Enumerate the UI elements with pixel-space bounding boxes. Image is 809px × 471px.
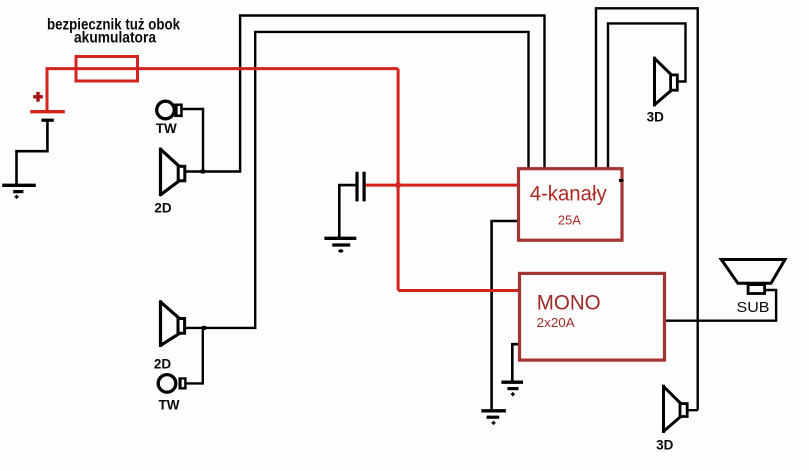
wire: red to MONO amp [398,289,520,292]
speaker 2D2 cone [159,300,162,347]
svg-text:3D: 3D [647,110,665,125]
stub mark inside amp top right [619,179,624,182]
wire: 4-kanaly ground [492,221,520,409]
wire: inner right loop to top 3D [608,23,686,170]
ground: 4-kanaly [481,409,506,412]
battery negative plate [41,119,53,122]
subwoofer SUB cone [721,260,785,284]
battery plus sign [33,92,43,102]
wire: MONO to SUB [664,290,776,321]
junction: red node at capacitor tap [395,182,401,188]
speaker 3D bottom cone [662,385,665,433]
wire: red main power battery to fuse to corner [47,69,398,111]
wire: 2D2 through inner loop to amp top [185,32,529,328]
ground: MONO [501,381,523,384]
svg-text:TW: TW [159,397,180,412]
svg-text:akumulatora: akumulatora [74,29,156,46]
svg-text:MONO: MONO [537,291,601,315]
speaker 2D1 cone [159,148,162,197]
svg-text:3D: 3D [656,438,674,453]
svg-text:4-kanały: 4-kanały [530,182,607,205]
tweeter TW2 [158,375,176,393]
wire: capacitor to ground [339,185,355,237]
svg-text:25A: 25A [558,213,581,228]
wire: 2D1 through outer loop to amp top [185,16,545,172]
wire: 3D bottom to loop [687,409,698,411]
svg-text:SUB: SUB [737,300,770,316]
ground: battery [2,184,36,187]
ground: capacitor [324,237,356,240]
wire: red vertical down to MONO level [397,69,400,291]
svg-text:TW: TW [156,121,177,136]
fuse F1 [76,57,138,82]
speaker 3D top cone [653,57,656,107]
capacitor C1 plates [357,172,364,202]
wire: outer right loop to bottom 3D [596,8,698,410]
amp MONO box [520,273,665,360]
amp 4-kanaly box [519,169,623,241]
wire: TW2 to junction [187,328,203,384]
battery positive plate [30,110,65,113]
wire: red capacitor node to 4-kanaly amp [366,184,520,187]
junction: TW1/2D1 node [200,169,206,173]
junction: TW2/2D2 node [201,326,207,330]
wire: TW1 to junction [183,109,203,172]
wire: battery negative to ground [17,120,48,184]
svg-text:2D: 2D [154,356,172,371]
svg-text:2D: 2D [154,201,172,216]
svg-text:2x20A: 2x20A [537,316,576,330]
wire: MONO ground [512,344,520,380]
tweeter TW1 [157,101,175,119]
